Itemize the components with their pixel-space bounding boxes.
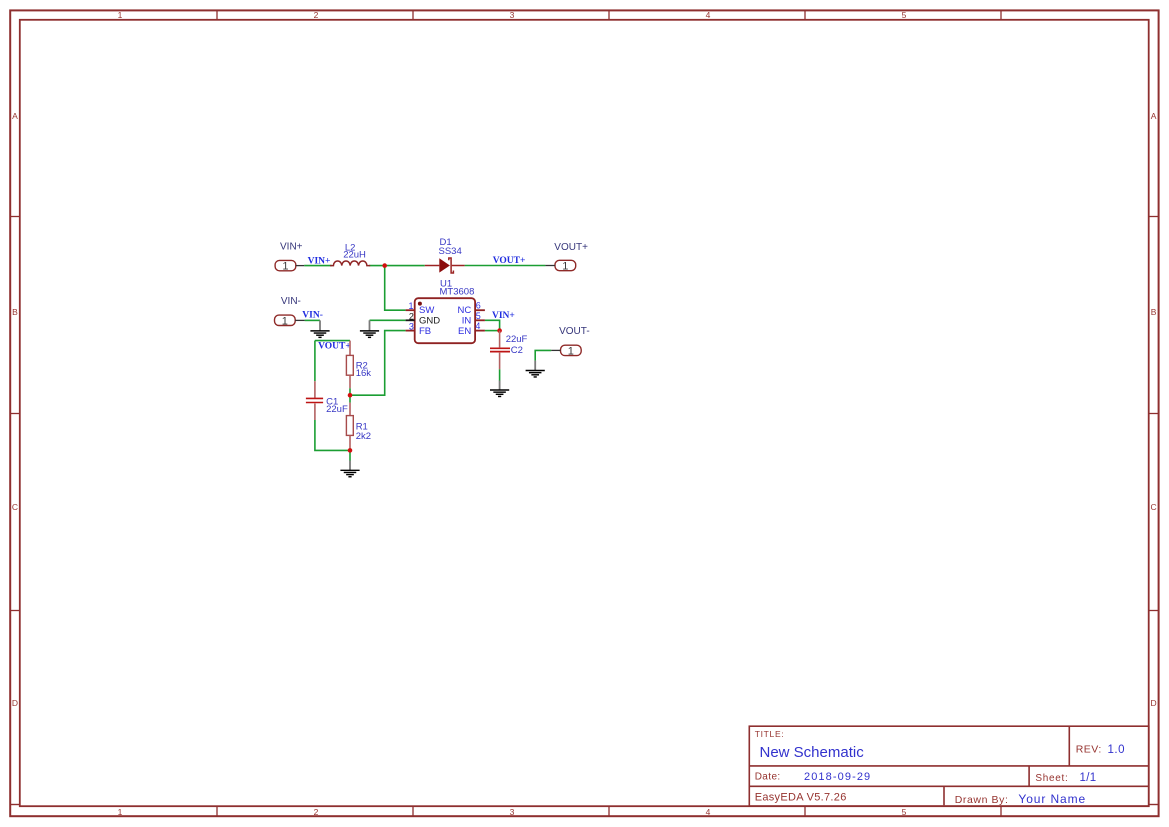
port VOUT+ — [545, 242, 588, 272]
junction R2/R1/FB — [348, 393, 353, 398]
svg-text:1: 1 — [118, 807, 123, 817]
junction IN/EN/C2 — [497, 328, 502, 333]
diode D1 SS34 — [425, 237, 465, 273]
row letters left — [12, 111, 18, 708]
svg-text:16k: 16k — [356, 368, 372, 379]
svg-text:Drawn By:: Drawn By: — [955, 794, 1009, 806]
svg-text:2: 2 — [314, 807, 319, 817]
wire VIN- port to ground stem — [305, 319, 320, 321]
svg-text:1: 1 — [568, 345, 574, 357]
svg-text:GND: GND — [419, 316, 440, 327]
svg-text:1.0: 1.0 — [1108, 744, 1126, 756]
svg-text:A: A — [1151, 111, 1157, 121]
wire L2 to D1 anode — [369, 265, 425, 267]
pin 4 EN stub — [475, 330, 485, 332]
ground G2 (IC GND) — [360, 320, 379, 337]
svg-text:VIN-: VIN- — [281, 296, 301, 307]
port VIN- — [275, 296, 305, 327]
row ticks right — [1149, 217, 1159, 611]
svg-text:SW: SW — [419, 305, 434, 316]
svg-text:VOUT+: VOUT+ — [318, 341, 351, 351]
wire R1 bottom junction to ground — [349, 448, 351, 460]
capacitor C2 — [490, 331, 528, 370]
svg-text:VIN+: VIN+ — [308, 256, 331, 266]
svg-text:MT3608: MT3608 — [440, 287, 475, 298]
wire FB pin to divider junction — [350, 331, 406, 396]
svg-text:1: 1 — [118, 10, 123, 20]
svg-text:3: 3 — [409, 322, 414, 332]
port VIN+ — [275, 241, 304, 272]
wire EN pin to junction — [485, 330, 500, 332]
svg-text:1: 1 — [282, 315, 288, 327]
resistor R2 — [346, 341, 371, 389]
svg-text:2018-09-29: 2018-09-29 — [804, 771, 871, 783]
column numbers bottom — [118, 807, 907, 817]
row letters right — [1151, 111, 1157, 708]
column ticks top — [217, 11, 1001, 20]
capacitor C1 — [306, 381, 348, 420]
svg-text:2: 2 — [314, 10, 319, 20]
svg-text:22uF: 22uF — [326, 404, 348, 415]
svg-text:2: 2 — [409, 311, 414, 321]
svg-text:4: 4 — [475, 321, 480, 331]
wire D1 cathode to VOUT+ port — [465, 265, 546, 267]
svg-text:C: C — [12, 502, 18, 512]
svg-text:EN: EN — [458, 326, 471, 337]
svg-text:4: 4 — [706, 807, 711, 817]
pin 1 SW stub — [406, 309, 415, 311]
wire junction to SW pin — [385, 266, 406, 311]
svg-text:1/1: 1/1 — [1080, 772, 1097, 784]
pin 3 FB stub — [406, 330, 415, 332]
svg-text:EasyEDA V5.7.26: EasyEDA V5.7.26 — [755, 791, 847, 803]
wires — [304, 266, 551, 461]
svg-text:B: B — [1151, 307, 1157, 317]
wire ground to GND pin — [370, 319, 406, 321]
svg-text:VOUT-: VOUT- — [559, 326, 590, 337]
wire left branch down to C1 — [314, 341, 316, 382]
svg-text:4: 4 — [706, 10, 711, 20]
ground G3 (R1 bottom) — [340, 461, 359, 477]
svg-text:TITLE:: TITLE: — [755, 729, 785, 739]
svg-text:FB: FB — [419, 326, 431, 337]
junction R1/C1/ground — [348, 448, 353, 453]
title block lines — [749, 726, 1149, 806]
column ticks bottom — [217, 806, 1001, 816]
svg-text:2k2: 2k2 — [356, 431, 371, 442]
svg-text:A: A — [12, 111, 18, 121]
svg-text:3: 3 — [510, 10, 515, 20]
svg-text:D: D — [1151, 698, 1157, 708]
svg-text:VIN+: VIN+ — [492, 311, 515, 321]
svg-text:C2: C2 — [511, 345, 523, 356]
junction L2/D1/SW — [382, 263, 387, 268]
wire IN pin corner — [485, 320, 500, 330]
svg-text:REV:: REV: — [1076, 744, 1102, 756]
svg-text:3: 3 — [510, 807, 515, 817]
port VOUT- — [551, 326, 589, 358]
letter strip bottom ticks — [10, 804, 20, 806]
svg-text:5: 5 — [476, 311, 481, 321]
ground G1 (VIN-) — [310, 320, 329, 337]
svg-text:5: 5 — [902, 10, 907, 20]
svg-text:SS34: SS34 — [439, 246, 462, 257]
svg-text:C: C — [1151, 502, 1157, 512]
wire VOUT- port to ground — [535, 350, 551, 360]
svg-text:VOUT+: VOUT+ — [554, 242, 588, 253]
pin 2 GND stub — [406, 319, 415, 321]
IC U1 MT3608 — [406, 278, 485, 343]
svg-text:1: 1 — [562, 261, 568, 273]
svg-text:5: 5 — [902, 807, 907, 817]
wire R2 bottom to junction — [349, 388, 351, 395]
svg-text:New Schematic: New Schematic — [760, 744, 865, 761]
svg-text:Sheet:: Sheet: — [1035, 773, 1068, 784]
svg-text:VIN-: VIN- — [302, 311, 323, 321]
ground G5 (VOUT-) — [526, 361, 545, 377]
svg-text:Your Name: Your Name — [1018, 792, 1086, 806]
svg-text:22uF: 22uF — [506, 334, 528, 345]
svg-text:B: B — [12, 307, 18, 317]
wire VIN+ port to L2 — [304, 265, 331, 267]
svg-text:1: 1 — [408, 301, 413, 311]
ground G4 (C2) — [490, 381, 509, 397]
wire VOUT+ node horizontal — [315, 340, 350, 342]
svg-text:Date:: Date: — [755, 772, 781, 783]
inductor L2 — [330, 242, 370, 265]
svg-text:1: 1 — [282, 261, 288, 273]
column numbers top — [118, 10, 907, 20]
wire C1 bottom to lower junction — [315, 420, 350, 450]
svg-text:VOUT+: VOUT+ — [493, 256, 526, 266]
resistor R1 — [346, 403, 371, 449]
pin 5 IN stub — [475, 319, 485, 321]
wire C2 bottom to ground — [499, 369, 501, 381]
svg-text:6: 6 — [476, 301, 481, 311]
svg-text:VIN+: VIN+ — [280, 241, 303, 252]
svg-text:22uH: 22uH — [343, 249, 366, 260]
row ticks left — [10, 217, 20, 611]
svg-text:IN: IN — [462, 315, 472, 326]
svg-text:D: D — [12, 698, 18, 708]
wire junction to R1 top — [349, 395, 351, 402]
pin 6 NC stub — [475, 309, 485, 311]
